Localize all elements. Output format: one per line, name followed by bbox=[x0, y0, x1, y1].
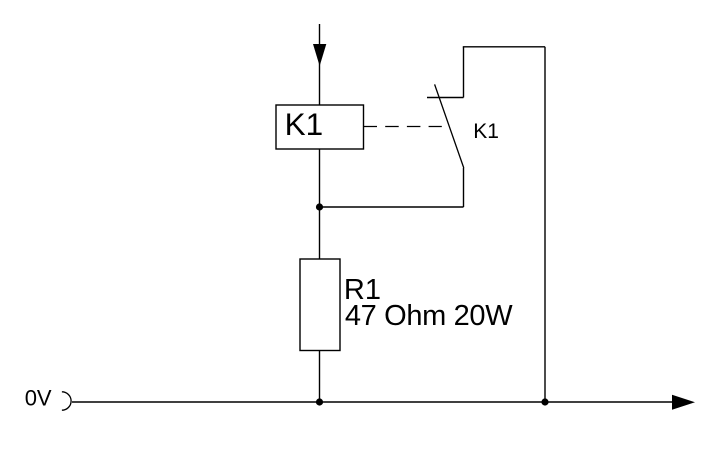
svg-text:47 Ohm 20W: 47 Ohm 20W bbox=[345, 300, 513, 332]
wire resistor to 0V rail bbox=[319, 351, 321, 403]
wire node A to contact bbox=[320, 206, 464, 208]
contact K1 upper terminal bbox=[463, 47, 465, 98]
wire supply feed vertical bbox=[319, 24, 321, 105]
arrowhead supply (down) bbox=[313, 44, 326, 66]
0V rail wire bbox=[72, 401, 680, 403]
node B junction dot (resistor / rail) bbox=[316, 398, 323, 405]
contact K1 fixed contact tick bbox=[427, 97, 464, 99]
wire coil to node A bbox=[319, 149, 321, 259]
relay coil K1 bbox=[276, 105, 364, 149]
node C junction dot (right bus / rail) bbox=[541, 398, 548, 405]
svg-text:0V: 0V bbox=[25, 385, 52, 410]
contact K1 lower terminal bbox=[463, 168, 465, 207]
contact K1 blade bbox=[435, 84, 464, 168]
dashed mechanical link K1 bbox=[364, 126, 442, 128]
arrowhead 0V rail (right) bbox=[672, 395, 695, 410]
svg-text:K1: K1 bbox=[473, 120, 499, 143]
resistor R1 bbox=[300, 259, 340, 351]
wire contact to right bus (top) bbox=[463, 46, 545, 48]
svg-text:K1: K1 bbox=[285, 106, 324, 142]
connector 0V socket arc bbox=[62, 392, 71, 410]
wire right bus vertical bbox=[544, 47, 546, 402]
node A junction dot bbox=[316, 203, 323, 210]
